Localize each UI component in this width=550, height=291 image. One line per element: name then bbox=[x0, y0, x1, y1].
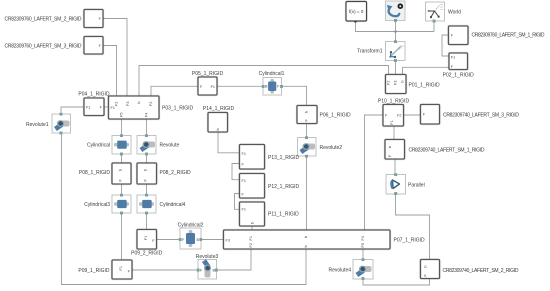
svg-text:b: b bbox=[119, 169, 123, 171]
block Revolute1 bbox=[26, 113, 71, 134]
svg-text:F4: F4 bbox=[361, 236, 365, 240]
svg-text:CR82309740_LAFERT_SM_3_RIGID: CR82309740_LAFERT_SM_3_RIGID bbox=[443, 112, 519, 118]
wire P03 bottom port2 to Revolute top bbox=[146, 119, 148, 136]
block P08_2_RIGID bbox=[137, 163, 191, 184]
wire P01 top port3 to P02.F bbox=[403, 67, 450, 74]
block P02_1_RIGID bbox=[443, 53, 475, 79]
wire Revolute bottom to P08_2 top bbox=[146, 154, 148, 163]
wire Parallel bottom to SM2r top port bbox=[396, 194, 430, 260]
block Cylindrical4 bbox=[137, 194, 186, 214]
block P04_1_RIGID bbox=[78, 91, 110, 115]
svg-text:F3: F3 bbox=[226, 238, 230, 242]
block Revolute3 bbox=[196, 254, 219, 279]
svg-text:Revolute1: Revolute1 bbox=[26, 122, 49, 128]
block P12_1_RIGID bbox=[240, 174, 300, 199]
wire P10.F2 to SM3r.F bbox=[404, 114, 421, 116]
block Revolute2 bbox=[298, 137, 343, 158]
block P08_1_RIGID bbox=[79, 163, 131, 184]
svg-text:F1: F1 bbox=[144, 236, 148, 240]
svg-text:b: b bbox=[304, 236, 308, 238]
svg-text:F4: F4 bbox=[145, 113, 149, 117]
wire P11.b to P07 top port1 bbox=[251, 226, 253, 230]
block CR82309760_LAFERT_SM_3_RIGID bbox=[5, 37, 104, 55]
wire Transform1 bottom to P01 top port2 bbox=[395, 61, 397, 75]
svg-text:CR82309760_LAFERT_SM_3_RIGID: CR82309760_LAFERT_SM_3_RIGID bbox=[5, 43, 82, 49]
wire P14.b to P13.F1 bbox=[218, 132, 240, 153]
wire P03 top port4 to P05.F bbox=[151, 86, 198, 95]
svg-text:P01_1_RIGID: P01_1_RIGID bbox=[409, 82, 441, 88]
svg-text:Revolute2: Revolute2 bbox=[320, 145, 343, 151]
svg-text:Revolute4: Revolute4 bbox=[328, 267, 351, 273]
svg-text:b: b bbox=[137, 102, 141, 104]
svg-text:Transform1: Transform1 bbox=[357, 49, 383, 55]
svg-text:F2: F2 bbox=[115, 102, 119, 106]
block f(x)=0 solver bbox=[346, 2, 367, 22]
block P05_1_RIGID bbox=[192, 71, 224, 95]
svg-text:P11_1_RIGID: P11_1_RIGID bbox=[268, 211, 299, 217]
block Cylindrical2 bbox=[178, 223, 204, 250]
svg-text:F2: F2 bbox=[149, 102, 153, 106]
svg-text:P12_1_RIGID: P12_1_RIGID bbox=[268, 184, 300, 190]
svg-text:Cylindrical2: Cylindrical2 bbox=[178, 223, 204, 229]
block CR82309740_LAFERT_SM_2_RIGID bbox=[421, 260, 519, 279]
wire SM1r bottom to Parallel top bbox=[394, 159, 396, 175]
svg-text:CR82309740_LAFERT_SM_2_RIGID: CR82309740_LAFERT_SM_2_RIGID bbox=[443, 268, 519, 274]
block P09_1_RIGID bbox=[78, 260, 132, 279]
svg-text:World: World bbox=[448, 9, 461, 15]
svg-text:b: b bbox=[216, 128, 220, 130]
svg-text:P13_1_RIGID: P13_1_RIGID bbox=[268, 155, 300, 161]
svg-text:F1: F1 bbox=[390, 120, 394, 124]
svg-text:b: b bbox=[424, 266, 428, 268]
svg-text:P09_1_RIGID: P09_1_RIGID bbox=[78, 268, 110, 274]
block Cylindrical1 bbox=[259, 71, 285, 95]
wire P07 bottom port2 to Revolute1 bottom bbox=[62, 133, 307, 285]
block World bbox=[426, 2, 462, 22]
svg-text:Cylindrical1: Cylindrical1 bbox=[259, 71, 285, 77]
svg-text:Cylindrical3: Cylindrical3 bbox=[84, 202, 110, 208]
wire P12.F to P11.F1 bbox=[235, 194, 240, 210]
block P11_1_RIGID bbox=[240, 202, 300, 226]
svg-text:Parallel: Parallel bbox=[408, 183, 425, 189]
svg-text:F1: F1 bbox=[242, 207, 246, 211]
block P06_1_RIGID bbox=[297, 106, 351, 124]
wire Revolute2 bottom to P07 top port2 bbox=[306, 156, 308, 230]
svg-text:P07_1_RIGID: P07_1_RIGID bbox=[394, 238, 426, 244]
wire Cylindrical3 bottom to P09_1 top bbox=[121, 213, 123, 260]
svg-text:CR82309760_LAFERT_SM_1_RIGID: CR82309760_LAFERT_SM_1_RIGID bbox=[472, 32, 545, 38]
svg-text:F5: F5 bbox=[361, 243, 365, 247]
node solver port dot bbox=[354, 20, 357, 23]
wire P09_2.F to Cylindrical2.F bbox=[157, 239, 181, 241]
block P13_1_RIGID bbox=[240, 145, 300, 170]
wire Revolute1 top to P04.F1 bbox=[61, 107, 84, 114]
svg-text:F3: F3 bbox=[394, 81, 398, 85]
svg-text:Revolute3: Revolute3 bbox=[196, 254, 219, 260]
block Revolute4 bbox=[328, 259, 373, 280]
svg-text:F1: F1 bbox=[211, 85, 215, 89]
wire P06 bottom to Revolute2 top bbox=[306, 124, 308, 138]
wire Cylindrical4 bottom to P09_2 top bbox=[146, 213, 148, 230]
svg-text:b: b bbox=[144, 169, 148, 171]
wire P03 bottom port1 to Cylindrical top bbox=[121, 119, 123, 136]
block P01_1_RIGID bbox=[386, 75, 441, 94]
wire P08_2 bottom to Cylindrical4 top bbox=[146, 184, 148, 195]
block Parallel bbox=[386, 174, 425, 195]
wire Revolute4 bottom to SM2r bottom port bbox=[363, 279, 430, 286]
svg-text:P09_2_RIGID: P09_2_RIGID bbox=[131, 251, 163, 257]
block Transform1 bbox=[357, 41, 405, 62]
block CR82309740_LAFERT_SM_3_RIGID bbox=[421, 105, 520, 125]
wire Cylindrical1.F to P06 top bbox=[282, 86, 307, 105]
svg-text:F1: F1 bbox=[249, 236, 253, 240]
svg-text:P02_1_RIGID: P02_1_RIGID bbox=[443, 73, 475, 79]
wire P05.F1 to Cylindrical1.B bbox=[217, 85, 263, 87]
block P03_1_RIGID bbox=[109, 96, 194, 119]
block P09_2_RIGID bbox=[131, 230, 163, 257]
svg-text:P08_1_RIGID: P08_1_RIGID bbox=[79, 170, 111, 176]
wire P08_1 bottom to Cylindrical3 top bbox=[121, 184, 123, 195]
svg-text:P05_1_RIGID: P05_1_RIGID bbox=[192, 71, 224, 77]
svg-text:F5: F5 bbox=[120, 113, 124, 117]
svg-text:b: b bbox=[304, 245, 308, 247]
svg-text:b: b bbox=[305, 111, 309, 113]
svg-text:F2: F2 bbox=[387, 81, 391, 85]
wire P04.F to P03.F1 bbox=[104, 106, 109, 108]
svg-text:P08_2_RIGID: P08_2_RIGID bbox=[160, 170, 192, 176]
wire SM1tr.F to P02.F1 bbox=[442, 35, 449, 56]
block CR82309760_LAFERT_SM_1_RIGID bbox=[449, 26, 545, 45]
svg-text:f(x) = 0: f(x) = 0 bbox=[349, 9, 364, 14]
svg-text:CR82309740_LAFERT_SM_1_RIGID: CR82309740_LAFERT_SM_1_RIGID bbox=[409, 147, 485, 153]
block Revolute bbox=[137, 135, 179, 156]
svg-text:P04_1_RIGID: P04_1_RIGID bbox=[78, 91, 110, 97]
block Mechanism Configuration bbox=[386, 1, 406, 22]
wire P10 bottom to SM1r top bbox=[393, 126, 395, 140]
wire Cylindrical bottom to P08_1 top bbox=[121, 154, 123, 163]
block CR82309760_LAFERT_SM_2_RIGID bbox=[5, 10, 104, 28]
svg-text:P10_1_RIGID: P10_1_RIGID bbox=[378, 98, 410, 104]
svg-text:CR82309760_LAFERT_SM_2_RIGID: CR82309760_LAFERT_SM_2_RIGID bbox=[5, 16, 82, 22]
svg-text:Revolute: Revolute bbox=[160, 142, 180, 148]
svg-text:b: b bbox=[388, 146, 392, 148]
svg-text:F2: F2 bbox=[249, 243, 253, 247]
block P14_1_RIGID bbox=[203, 106, 235, 132]
wire P03 top port3 to P01 top port1 bbox=[139, 66, 389, 96]
svg-text:P14_1_RIGID: P14_1_RIGID bbox=[203, 106, 235, 112]
wire Revolute3.B to P07 bottom port1 bbox=[217, 249, 252, 270]
svg-text:Cylindrical: Cylindrical bbox=[87, 142, 110, 148]
svg-text:Cylindrical4: Cylindrical4 bbox=[160, 202, 186, 208]
block P07_1_RIGID bbox=[224, 230, 426, 249]
svg-text:F1: F1 bbox=[242, 152, 246, 156]
node junction dot bbox=[394, 30, 397, 33]
svg-text:P06_1_RIGID: P06_1_RIGID bbox=[320, 113, 352, 119]
wire Cylindrical2.B to P07.F3 bbox=[201, 239, 224, 241]
wire P07 bottom port3 to Revolute4 top bbox=[362, 249, 364, 260]
svg-text:F2: F2 bbox=[397, 114, 401, 118]
svg-text:F1: F1 bbox=[86, 106, 90, 110]
svg-text:F1: F1 bbox=[119, 266, 123, 270]
wire P10.F to P07 top port3 bbox=[365, 115, 384, 230]
block P10_1_RIGID bbox=[378, 98, 410, 126]
svg-text:b: b bbox=[251, 222, 255, 224]
svg-text:b: b bbox=[401, 81, 405, 83]
wire SM2tl.F to P03 top port2 bbox=[103, 19, 127, 96]
block Cylindrical3 bbox=[84, 194, 131, 214]
block CR82309740_LAFERT_SM_1_RIGID bbox=[385, 140, 485, 160]
svg-text:F1: F1 bbox=[451, 55, 455, 59]
svg-text:F3: F3 bbox=[126, 102, 130, 106]
svg-text:P03_1_RIGID: P03_1_RIGID bbox=[162, 106, 194, 112]
svg-text:F1: F1 bbox=[242, 179, 246, 183]
wire P09_1.F to Revolute3.F bbox=[132, 269, 198, 271]
wire solver network horizontal bbox=[356, 21, 435, 42]
block Cylindrical bbox=[87, 135, 131, 156]
wire P13.F to P12.F1 bbox=[232, 164, 240, 180]
wire SM3tl.F to P03 top port1 bbox=[103, 46, 117, 96]
